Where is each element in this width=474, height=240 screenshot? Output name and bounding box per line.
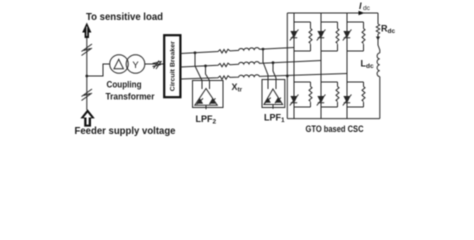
leg 3 wire bbox=[346, 13, 348, 119]
snubber resistor R5 bbox=[336, 87, 339, 102]
circuit breaker box bbox=[164, 35, 180, 97]
svg-text:Rdc: Rdc bbox=[381, 24, 395, 36]
svg-text:Xtr: Xtr bbox=[232, 82, 243, 94]
wire: LPF2 feed 2 bbox=[206, 66, 210, 89]
GTO device symbol bbox=[317, 22, 326, 51]
svg-text:Circuit Breaker: Circuit Breaker bbox=[170, 41, 177, 92]
cell frame Q2 bbox=[321, 22, 338, 51]
node: LPF1 tap on phase B bbox=[272, 61, 275, 64]
cell frame Q5 bbox=[321, 82, 338, 107]
snubber resistor R4 bbox=[309, 87, 312, 102]
cell frame Q3 bbox=[347, 22, 364, 51]
phase line A with series zigzag and coil bbox=[181, 48, 295, 54]
snubber resistor R3 bbox=[362, 29, 365, 44]
snubber resistor R2 bbox=[336, 29, 339, 44]
svg-text:LPF1: LPF1 bbox=[264, 113, 285, 125]
svg-text:Y: Y bbox=[132, 60, 139, 71]
wire: LPF2 feed 1 bbox=[195, 53, 202, 89]
LPF1 thyristor mark right bbox=[275, 98, 281, 104]
arrow: Idc direction bbox=[359, 11, 365, 15]
GTO Q5 (bottom leg2) bbox=[317, 82, 339, 107]
svg-text:GTO based CSC: GTO based CSC bbox=[306, 124, 364, 135]
GTO device symbol bbox=[343, 82, 352, 107]
GTO Q4 (bottom leg1) bbox=[290, 82, 312, 107]
phase line C with series zigzag and coil bbox=[181, 74, 348, 80]
node: LPF2 tap on phase B bbox=[204, 65, 207, 68]
svg-text:To sensitive load: To sensitive load bbox=[86, 11, 163, 23]
svg-text:I: I bbox=[359, 1, 362, 11]
LPF2 thyristor mark left bbox=[197, 98, 203, 104]
GTO device symbol bbox=[290, 22, 299, 51]
svg-text:Transformer: Transformer bbox=[106, 92, 155, 103]
svg-text:Ldc: Ldc bbox=[361, 59, 374, 71]
wire: LPF1 feed 1 bbox=[263, 49, 268, 89]
GTO Q3 (top leg3) bbox=[343, 22, 365, 51]
inductor Ldc bbox=[377, 53, 380, 77]
GTO Q2 (top leg2) bbox=[317, 22, 339, 51]
converter box left edge bbox=[286, 13, 288, 119]
cell frame Q4 bbox=[294, 82, 311, 107]
GTO device symbol bbox=[343, 22, 352, 51]
leg 1 wire bbox=[293, 13, 295, 119]
svg-text:LPF2: LPF2 bbox=[196, 114, 217, 126]
GTO Q6 (bottom leg3) bbox=[343, 82, 365, 107]
cell frame Q6 bbox=[347, 82, 364, 107]
3-phase hatch on bus (upper) bbox=[82, 44, 93, 56]
LPF2 center tick bbox=[205, 105, 207, 109]
LPF1 center tick bbox=[272, 105, 274, 109]
LPF1 filter delta bbox=[264, 89, 283, 105]
LPF1 box bbox=[262, 80, 285, 108]
wire: left feeder bus bbox=[86, 38, 88, 110]
coupling transformer primary circle with delta bbox=[110, 55, 129, 74]
node: LPF2 tap on phase A bbox=[194, 51, 197, 54]
LPF2 box bbox=[193, 81, 224, 108]
phase line B with series zigzag and coil bbox=[181, 61, 322, 68]
GTO device symbol bbox=[317, 82, 326, 107]
3-phase hatch on bus (lower) bbox=[82, 89, 93, 101]
converter top bus bbox=[287, 12, 378, 14]
wire: LPF1 feed 2 bbox=[273, 63, 276, 89]
coupling transformer secondary circle with Y bbox=[126, 55, 145, 74]
svg-text:Coupling: Coupling bbox=[107, 80, 142, 91]
converter bottom bus bbox=[287, 118, 380, 120]
GTO Q1 (top leg1) bbox=[290, 22, 312, 51]
cell frame Q1 bbox=[294, 22, 311, 51]
wire: bus to coupling transformer bbox=[87, 64, 110, 76]
arrow to sensitive load bbox=[82, 23, 91, 39]
svg-text:dc: dc bbox=[363, 5, 371, 12]
junction node to transformer bbox=[85, 75, 88, 78]
LPF2 filter delta bbox=[195, 89, 218, 106]
snubber resistor R1 bbox=[309, 29, 312, 44]
LPF1 thyristor mark left bbox=[265, 98, 271, 104]
svg-text:Feeder supply voltage: Feeder supply voltage bbox=[75, 125, 176, 137]
3-phase hatch mark on transformer output bbox=[153, 61, 162, 70]
leg 2 wire bbox=[320, 13, 322, 119]
dc link wire right bbox=[378, 13, 380, 119]
node on box edge at phase C bbox=[286, 75, 289, 78]
wire: transformer to circuit breaker bbox=[145, 63, 164, 65]
arrow: feeder supply (block arrow up) bbox=[80, 109, 94, 126]
snubber resistor R6 bbox=[362, 87, 365, 102]
arrowhead on dc link below Rdc bbox=[376, 37, 380, 41]
node: LPF1 tap on phase A bbox=[262, 48, 265, 51]
GTO device symbol bbox=[290, 82, 299, 107]
resistor Rdc bbox=[376, 24, 379, 34]
LPF2 thyristor mark right bbox=[209, 98, 215, 104]
